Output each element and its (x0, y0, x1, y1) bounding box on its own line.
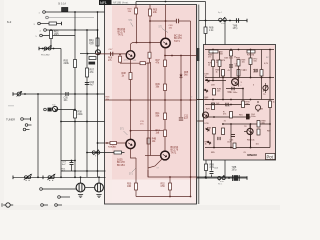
junction R05m base wire (149, 42, 151, 44)
junction R05m wire21 (149, 20, 151, 22)
svg-text:R6B: R6B (210, 165, 215, 167)
wire ra y80 (205, 80, 226, 82)
stub cap C13 (80, 177, 82, 183)
resistor Rb6 (257, 129, 260, 135)
junction extra c (213, 116, 215, 118)
resistor R10 (114, 151, 122, 154)
input connector J3 (38, 22, 41, 25)
wire y55 to border (165, 55, 197, 57)
svg-text:1: 1 (39, 13, 40, 15)
rail A x61 (60, 49, 62, 178)
wire from J3 (40, 23, 49, 25)
label R61 (210, 165, 215, 169)
pot P01 left bar (38, 47, 40, 51)
svg-text:TMB: TMB (232, 167, 237, 169)
label R50 (127, 184, 132, 188)
resistor R05m (149, 9, 152, 16)
label R14 above bus (62, 169, 67, 173)
label border R06b (106, 97, 111, 101)
resistor R16 (110, 142, 117, 145)
resistor Rc3 (242, 101, 245, 108)
svg-text:100u: 100u (251, 116, 256, 118)
Pot label box (266, 154, 276, 160)
rail ra x270 (269, 50, 271, 78)
svg-text:R05: R05 (153, 10, 158, 12)
junction D05 top (180, 55, 182, 57)
label Ra4 (216, 60, 221, 64)
junction rb y124 a (230, 123, 232, 125)
resistor Ra5 (249, 58, 252, 65)
label speck 1V (224, 121, 227, 123)
junction extra a (238, 49, 240, 51)
label Rc3 (246, 102, 251, 106)
label Tb2 (244, 126, 247, 128)
svg-text:NF1: NF1 (100, 1, 107, 5)
rail T04 emitter (164, 48, 166, 151)
svg-text:Si 0,1A: Si 0,1A (58, 3, 66, 6)
capacitor C03 (85, 82, 89, 84)
junction y55 x172 (171, 55, 173, 57)
right box bus y77.5 (205, 77, 274, 79)
svg-text:L01: L01 (133, 60, 136, 62)
speaker bus wire (13, 176, 106, 178)
junction T02/railB (74, 109, 76, 111)
module code 02NJ3U (247, 153, 257, 157)
label R10 (112, 147, 115, 149)
main rail x190.5 (190, 21, 192, 197)
edge smudge left (8, 105, 14, 107)
svg-text:C67: C67 (227, 142, 231, 144)
amplifier module box (middle pink) (105, 5, 197, 205)
rail tr x206 (205, 21, 207, 45)
label speck C63 (227, 92, 232, 94)
capacitor Ca1 (229, 65, 233, 67)
label Ca2 (229, 92, 238, 94)
rail rc x238 up (238, 66, 240, 78)
wire y177 corner (148, 170, 197, 177)
junction bus railA (60, 176, 62, 178)
resistor R06 (119, 56, 122, 62)
svg-text:BC154: BC154 (117, 164, 125, 167)
junction branch railB (74, 160, 76, 162)
label R16 (108, 147, 117, 149)
top supply drop x205 (205, 2, 207, 21)
capacitor Cc1 (226, 103, 228, 106)
resistor R05 (74, 60, 77, 68)
label C11b (140, 121, 145, 125)
label T05 types (117, 159, 125, 167)
label 571 T04 (159, 27, 164, 29)
wire y21 to rail190 (179, 20, 191, 22)
wire y131 (131, 130, 164, 132)
label speck 5 (253, 85, 255, 87)
resistor R03 (50, 31, 53, 39)
wire from J1 (45, 11, 104, 13)
wire from J13 (43, 204, 48, 206)
connector J11 (40, 188, 43, 191)
terminal end R01 (61, 22, 63, 26)
svg-text:187p: 187p (232, 169, 238, 171)
label speck R76 (222, 60, 227, 62)
rail extra x238 mid (238, 78, 240, 87)
rail R50 (135, 158, 137, 183)
T03-T04 base wire (133, 42, 161, 44)
rail T03 emitter (130, 59, 132, 139)
svg-text:1M5: 1M5 (54, 33, 59, 36)
svg-text:C05: C05 (64, 98, 69, 100)
label 1,5V top (90, 44, 95, 46)
svg-text:R50: R50 (127, 184, 132, 186)
svg-text:T9: T9 (263, 94, 265, 96)
svg-text:R8B: R8B (262, 121, 267, 123)
input connector J5 (40, 34, 43, 37)
input connector J2 (46, 16, 49, 19)
junction bot bus c (250, 147, 252, 149)
C07 stub down (71, 165, 73, 171)
transistor T06 (161, 151, 170, 160)
label speck 0,2V (264, 63, 269, 65)
svg-text:1k: 1k (208, 65, 210, 67)
arrow to T03 (131, 23, 134, 27)
label speck C67 (227, 142, 231, 144)
diode Da1 (204, 78, 210, 84)
wire from J14 (57, 204, 62, 206)
label C09 (169, 25, 174, 29)
label Da1 (205, 74, 210, 78)
label J4 tag (40, 31, 42, 33)
svg-text:2k: 2k (234, 57, 236, 59)
T04 collector rail (165, 5, 167, 39)
label Ra2 (224, 58, 233, 60)
junction y94 railB (74, 93, 76, 95)
svg-text:P01 2M2: P01 2M2 (41, 55, 50, 57)
capacitor C20 (236, 18, 238, 22)
pot P01 wire (39, 48, 61, 50)
junction tr2 (229, 20, 231, 22)
resistor Rb5 (222, 128, 225, 135)
resistor Rb3 (257, 121, 260, 128)
label T04 types (174, 35, 182, 43)
connector J12 (58, 196, 61, 199)
wire from J5 (42, 35, 75, 37)
svg-text:R6B: R6B (208, 55, 213, 57)
right box bottom bus y147 (205, 147, 270, 149)
label C03 (90, 81, 95, 87)
wire from J8 (28, 124, 32, 126)
resistor Ra9 (213, 89, 216, 96)
fuse F1 label (58, 3, 66, 6)
collector wire y21 (150, 20, 176, 22)
rail R52 low (169, 190, 171, 197)
svg-text:R09: R09 (156, 84, 161, 86)
svg-text:D7B: D7B (205, 123, 210, 125)
pot P04 pair (24, 174, 32, 180)
label Ra9 (217, 89, 222, 93)
pot P01 dot b (53, 48, 55, 50)
svg-text:C56: C56 (161, 186, 166, 188)
connector J6 (44, 108, 47, 111)
junction rb1 (212, 49, 214, 51)
label speck R85 (211, 152, 216, 154)
wire rb y117 (208, 116, 251, 118)
svg-text:♀: ♀ (240, 84, 242, 87)
junction y77 e (269, 77, 271, 79)
resistor Rb4 (213, 128, 216, 135)
right box mid bus y99 (197, 99, 274, 101)
stub Ra1 (212, 49, 214, 52)
rail rc x219 (219, 52, 221, 61)
svg-text:R52: R52 (161, 184, 166, 186)
top supply wire y1.5 (136, 1, 206, 3)
wire from J12 (60, 196, 70, 198)
rail B top junction (74, 11, 76, 13)
resistor Ra2 (230, 51, 233, 57)
potentiometer P01 (44, 45, 52, 51)
resistor Rc4 (269, 101, 272, 108)
wire rc y131 (244, 131, 247, 133)
label speck D09 (211, 85, 215, 87)
junction y77 a (222, 77, 224, 79)
label speck R75 1k (208, 63, 213, 67)
junction y77 d (261, 77, 263, 79)
label Ca1 (235, 64, 240, 68)
resistor Rb1 (212, 103, 215, 110)
resistor Ra6 (222, 70, 225, 77)
svg-text:TA71: TA71 (174, 40, 180, 43)
resistor R12h (140, 62, 146, 65)
diode Da2 (203, 88, 209, 94)
junction br1 (205, 177, 207, 179)
rail R05 to wire63 (149, 58, 151, 63)
potentiometer P03 (92, 150, 100, 156)
T05 emitter jog (131, 149, 137, 158)
gap wire y99 (197, 99, 204, 101)
label speck 3 (241, 82, 243, 84)
gap wire y121 inside (199, 120, 204, 122)
label anno 4,7V (226, 106, 231, 108)
label R03 (54, 31, 59, 37)
junction rb y124 b (250, 123, 252, 125)
R03 to pot P01 (50, 39, 52, 49)
junction bottom y196 a (169, 196, 171, 198)
label R05m (153, 10, 158, 14)
input connector J1 (43, 11, 46, 14)
junction ra y80 (212, 80, 214, 82)
junction rb3 (250, 49, 252, 51)
resistor R52 (169, 183, 172, 190)
rail rb x250 low (250, 124, 252, 148)
T05 base wire (105, 142, 127, 144)
resistor R03m (135, 8, 138, 14)
middle box right border double line (197, 5, 199, 205)
label R03m (128, 9, 133, 13)
connector J9 (23, 128, 26, 131)
label J1 tag (39, 13, 40, 15)
rail R03m lower (136, 14, 138, 43)
capacitor Cb2 (231, 134, 235, 136)
rail tb2 down (250, 135, 252, 148)
label R07m (156, 60, 161, 64)
label R11m (156, 113, 161, 117)
volume chain wire (87, 152, 125, 154)
electrolytic C21 (234, 175, 239, 181)
junction y77 b (238, 77, 240, 79)
junction y94 railC (86, 93, 88, 95)
junction y177 d (205, 176, 207, 178)
label R07 (90, 69, 95, 75)
rail diode D05 (180, 56, 182, 101)
feed R03m (135, 5, 137, 9)
trim block (89, 62, 96, 65)
wire ra y88 (226, 88, 243, 90)
label Rb4 (207, 128, 212, 132)
wire from J9 (26, 129, 30, 131)
junction y55 x165 (164, 55, 166, 57)
terminal monitor bus (12, 92, 14, 96)
svg-text:D09: D09 (211, 85, 215, 87)
label P08 (218, 184, 222, 186)
rail rc x243 (242, 89, 244, 102)
resistor Rc1 (218, 60, 221, 67)
pot P05 pair (47, 174, 55, 180)
label speck T9 (263, 94, 265, 96)
capacitor Cc2 (255, 69, 257, 72)
svg-text:220k: 220k (64, 62, 70, 65)
junction D05 bus (180, 99, 182, 101)
svg-text:D05: D05 (184, 72, 189, 74)
label left edge a (205, 97, 210, 101)
label Rb6 (247, 140, 256, 142)
junction rc2 (242, 88, 244, 90)
svg-text:220k: 220k (78, 114, 84, 116)
pickup element T01b (96, 50, 101, 55)
junction R04 stub (97, 29, 99, 31)
junction base rail R06 (119, 53, 121, 55)
junction rb2 (230, 49, 232, 51)
rail tr x225 (224, 21, 226, 45)
label Ra6 (216, 70, 221, 74)
junction y121 railC (86, 121, 88, 123)
label R05 (64, 60, 70, 66)
junction tr1 (205, 20, 207, 22)
rail rc x261c (261, 84, 263, 100)
junction emitter rail y131 (130, 130, 132, 132)
wire y177 right part (197, 176, 247, 178)
capacitor C07 bottom (70, 162, 74, 164)
resistor Ra1 (209, 50, 218, 53)
junction chain railD (97, 152, 99, 154)
junction R03m base wire (136, 42, 138, 44)
capacitor C15 (210, 171, 214, 173)
junction y121 railB (74, 121, 76, 123)
label C07m (109, 49, 114, 51)
trimmer Ta2 symbol (263, 85, 268, 90)
junction br2 (228, 177, 230, 179)
label R13m (156, 130, 161, 134)
label speck R87 (267, 131, 271, 133)
junction J4/rail3 (86, 29, 88, 31)
anno 5T1 (157, 168, 160, 170)
resistor R14 (129, 73, 132, 80)
wire tuner bus to module (98, 142, 105, 144)
label speck 4V (228, 70, 231, 72)
wire from J11 (42, 188, 76, 190)
dark block on border (196, 48, 199, 61)
label D05 (184, 72, 189, 76)
symbol G (255, 101, 260, 112)
link wire between caps (85, 187, 94, 189)
label Rb1 (216, 103, 220, 105)
svg-text:R81: R81 (239, 115, 243, 117)
resistor R07m (164, 60, 167, 67)
potentiometer P07 (219, 17, 227, 23)
label R04 (89, 39, 94, 45)
resistor Ra8 (260, 70, 263, 77)
junction rail190 y100 (190, 99, 192, 101)
resistor Ra7 (237, 70, 240, 77)
svg-text:C6B 100n: C6B 100n (224, 58, 233, 60)
junction C07 (71, 160, 73, 162)
svg-text:R79: R79 (206, 109, 210, 111)
ground C13 (78, 195, 83, 198)
top right bus y20.5 (199, 20, 247, 22)
wire y171 (61, 170, 106, 172)
svg-text:R87: R87 (267, 131, 271, 133)
svg-text:1,5V: 1,5V (90, 44, 95, 46)
rail rc x270 mid (269, 78, 271, 125)
capacitor C11 (179, 118, 183, 120)
label R08 (78, 112, 84, 116)
label speck R79 (206, 109, 210, 111)
resistor R08 (74, 111, 77, 119)
rail rc x219b (219, 67, 221, 78)
rail ra x213 (212, 52, 214, 81)
label speck R77 (244, 70, 248, 72)
junction y171 railC (86, 170, 88, 172)
rail br x225 (224, 160, 226, 178)
rail x148 (147, 62, 149, 177)
junction rc3 (269, 123, 271, 125)
junction y171 railD (97, 170, 99, 172)
svg-text:R77: R77 (244, 70, 248, 72)
resistor R13m (164, 130, 167, 137)
junction rc1 (222, 99, 224, 101)
label P01 (41, 55, 50, 57)
transistor T03 (126, 51, 135, 60)
bus left terminal (12, 176, 14, 180)
output module box (right pink) (204, 45, 276, 161)
mid bus y100 (105, 99, 198, 101)
resistor R09m (164, 84, 167, 91)
bus mid terminal (42, 176, 44, 180)
rail E x38 (37, 94, 39, 177)
rail ra x231 (230, 56, 232, 78)
wire y63 (120, 62, 150, 64)
svg-text:4n7: 4n7 (90, 84, 95, 87)
left margin strip (0, 0, 4, 210)
rail rb x231 low (230, 124, 232, 148)
resistor Rb2 (230, 112, 233, 119)
resistor Rc5 (233, 143, 236, 149)
label Ra7 (242, 70, 246, 72)
junction input railC (87, 53, 89, 55)
label left edge b (205, 142, 210, 146)
junction bus railE (37, 176, 39, 178)
label Ra3 (247, 55, 254, 57)
svg-text:R07: R07 (156, 60, 161, 62)
transistor Tb2 (247, 128, 253, 134)
wire rb y124 (222, 123, 270, 125)
